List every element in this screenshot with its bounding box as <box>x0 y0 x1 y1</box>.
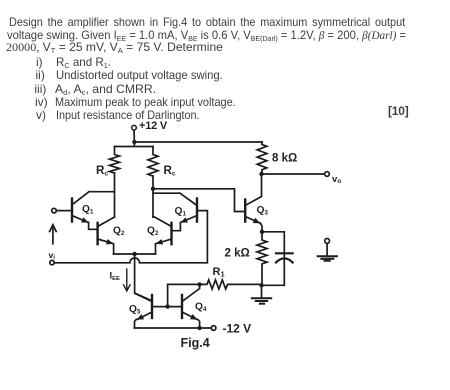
svg-text:Rc: Rc <box>96 164 108 178</box>
+12 V supply terminal <box>132 120 168 132</box>
wire: input to Q1 base <box>56 210 71 212</box>
reference ground terminal <box>318 239 337 261</box>
svg-text:Q2: Q2 <box>147 226 159 238</box>
svg-text:Fig.4: Fig.4 <box>181 336 210 350</box>
transistor Q5 (mirror left) <box>129 294 152 320</box>
wire: emitter junction bar <box>114 253 156 255</box>
transistor Q2 (right darlington bottom) <box>147 217 172 244</box>
svg-text:IEE: IEE <box>110 271 121 282</box>
ground (emitter network) <box>252 285 271 303</box>
svg-text:-12 V: -12 V <box>223 321 252 335</box>
input terminal (bottom) <box>50 260 54 264</box>
vi source arrow <box>49 225 57 261</box>
svg-text:vi: vi <box>49 250 56 261</box>
problem text paragraph <box>9 15 405 29</box>
wire: left collector line <box>114 173 116 217</box>
node: ground junction <box>259 283 263 287</box>
wire: left Q2 emitter drop <box>113 244 115 254</box>
capacitor (bypass) <box>262 232 293 285</box>
wire: mirror base link <box>152 306 182 308</box>
node: R1 left node <box>197 282 201 286</box>
wire: negative supply rail <box>135 327 212 329</box>
svg-text:vo: vo <box>332 174 341 185</box>
IEE current arrow <box>110 269 131 291</box>
resistor 2 kOhm <box>225 232 268 285</box>
resistor 8 kOhm <box>257 142 297 174</box>
svg-text:R1: R1 <box>213 266 225 279</box>
svg-text:Q2: Q2 <box>113 226 125 238</box>
wire: bottom input to right Q1 base, hump over tail line <box>54 211 207 263</box>
resistor R1 <box>200 266 262 289</box>
wire: right collector to Q3 base <box>153 189 244 212</box>
marks [10] <box>388 104 409 118</box>
wire: right collector line <box>152 176 154 217</box>
wire: tail current line <box>135 254 152 301</box>
-12 V supply terminal <box>211 321 251 335</box>
node: +12V rail junction <box>132 140 136 144</box>
wire: Q3 emitter drop <box>260 223 262 232</box>
node: output node <box>259 172 263 176</box>
wire: base node to diode node <box>168 284 200 306</box>
transistor Q4 (mirror right, diode connected) <box>182 284 207 319</box>
node: Q3 emitter node <box>260 230 264 234</box>
transistor Q2 (left darlington bottom) <box>98 217 125 244</box>
node: mirror base node <box>165 304 169 308</box>
resistor RC (right) <box>148 147 176 178</box>
svg-text:+12 V: +12 V <box>139 120 168 132</box>
wire: Q4 emitter to rail <box>198 319 200 328</box>
wire: supply terminal to rail <box>133 130 135 142</box>
node: rail junction <box>197 326 201 330</box>
node: emitter junction <box>132 252 136 256</box>
wire: output node to vo terminal <box>262 173 325 175</box>
resistor RC (left) <box>96 147 120 178</box>
svg-text:8 kΩ: 8 kΩ <box>272 153 297 165</box>
svg-text:Q5: Q5 <box>129 304 141 316</box>
svg-text:Rc: Rc <box>164 164 176 178</box>
list <box>36 55 43 69</box>
node: right collector node <box>151 187 155 191</box>
output terminal vo <box>325 172 342 185</box>
input terminal (left, +) <box>52 208 57 213</box>
transistor Q3 <box>245 174 268 223</box>
wire: rail T-bar over collector resistors <box>115 142 154 147</box>
transistor Q1 (left darlington top) <box>72 192 115 223</box>
transistor Q1 (right darlington top) <box>153 193 197 222</box>
wire: right Q1 emitter to Q2 base <box>173 222 181 230</box>
wire: Q5 emitter to rail <box>135 319 137 328</box>
svg-text:2 kΩ: 2 kΩ <box>225 247 250 259</box>
svg-text:Q4: Q4 <box>195 302 207 314</box>
wire: Q1 emitter to Q2 base <box>89 222 97 229</box>
wire: +12V rail to 8k resistor <box>134 141 262 143</box>
svg-text:Q1: Q1 <box>175 206 187 218</box>
wire: right Q2 emitter drop <box>155 244 157 254</box>
svg-text:Q3: Q3 <box>257 205 269 217</box>
svg-text:Q1: Q1 <box>82 204 94 216</box>
